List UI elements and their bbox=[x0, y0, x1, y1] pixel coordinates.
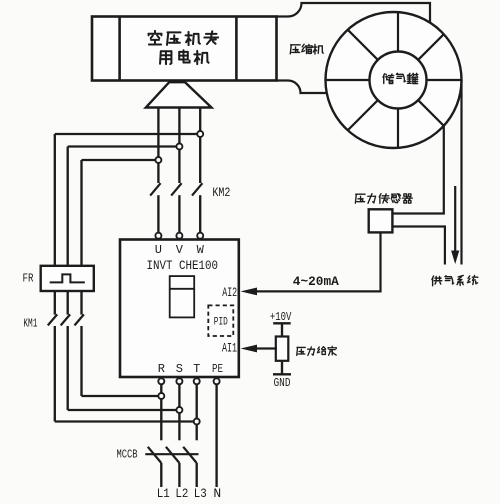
node on T wire bbox=[194, 419, 200, 425]
wire left bus 1 vertical (to T) bbox=[54, 134, 56, 315]
wire potentiometer wiper to AI1 bbox=[256, 347, 277, 349]
motor delta connection symbol bbox=[146, 82, 212, 107]
motor label line1 空压机专 bbox=[149, 31, 162, 45]
pipe right wall from tank to supply outlet bbox=[460, 80, 462, 265]
arrowhead into AI2 bbox=[241, 288, 258, 296]
FR pulse symbol bbox=[50, 274, 85, 282]
node on W phase (top tap) bbox=[197, 131, 203, 137]
wire PE terminal down to N bbox=[215, 385, 217, 488]
air tank label 储气罐 bbox=[383, 74, 394, 84]
svg-text:PE: PE bbox=[212, 362, 223, 376]
node on U phase (low tap) bbox=[155, 157, 161, 163]
GND rail bar bbox=[273, 373, 291, 375]
wire R terminal down to MCCB bbox=[160, 385, 162, 441]
wire tap from W-phase node to left bus 1 bbox=[55, 133, 200, 135]
potentiometer 压力给定 bbox=[276, 337, 289, 361]
wire V-phase KM2 to terminal V bbox=[178, 195, 180, 236]
wire tap from V-phase node to left bus 2 bbox=[68, 145, 180, 147]
wire W-phase from motor delta to KM2 bbox=[199, 108, 201, 184]
wire T terminal down to MCCB bbox=[196, 385, 198, 441]
svg-text:4~20mA: 4~20mA bbox=[293, 274, 339, 289]
setpoint label 压力给定 bbox=[297, 347, 306, 355]
svg-text:N: N bbox=[213, 486, 221, 501]
svg-text:PID: PID bbox=[214, 316, 228, 328]
supply system label 供气系统 bbox=[432, 276, 442, 286]
MCCB blades bbox=[148, 447, 162, 463]
wire potentiometer to GND bbox=[281, 361, 283, 375]
svg-text:L3: L3 bbox=[194, 486, 207, 501]
wire W-phase KM2 to terminal W bbox=[199, 195, 201, 236]
compressor coupling outline bottom bbox=[277, 81, 328, 94]
terminal circle R bbox=[158, 378, 164, 384]
wire left bus 1 horizontal to T junction bbox=[55, 420, 197, 422]
svg-text:T: T bbox=[193, 362, 200, 376]
terminal circle V bbox=[176, 233, 182, 239]
wire 4-20mA from sensor to AI2 bbox=[255, 232, 381, 291]
contactor KM2 blades bbox=[150, 183, 160, 195]
thermal relay FR box bbox=[41, 266, 94, 291]
wire R below MCCB to L1 bbox=[160, 463, 162, 487]
svg-text:S: S bbox=[176, 362, 183, 376]
compressor label 压缩机 bbox=[290, 45, 300, 54]
svg-text:U: U bbox=[155, 243, 162, 257]
inverter keypad rectangle bbox=[170, 276, 195, 317]
svg-text:INVT CHE100: INVT CHE100 bbox=[147, 258, 219, 273]
wire left bus 3 vertical (to R) bbox=[80, 160, 82, 315]
wire tap from U-phase node to left bus 3 bbox=[82, 159, 159, 161]
svg-text:AI2: AI2 bbox=[222, 286, 237, 300]
svg-text:KM2: KM2 bbox=[212, 185, 230, 200]
contactor KM1 blades bbox=[48, 314, 57, 325]
supply flow arrow bbox=[454, 186, 456, 252]
node on V phase (mid tap) bbox=[176, 144, 182, 150]
node on S wire bbox=[176, 407, 182, 413]
svg-text:W: W bbox=[197, 243, 205, 257]
svg-text:L1: L1 bbox=[157, 486, 170, 501]
terminal circle U bbox=[155, 233, 161, 239]
wire U-phase from motor delta to KM2 bbox=[157, 108, 159, 184]
wire left bus 2 horizontal to S junction bbox=[68, 409, 180, 411]
pressure sensor box bbox=[369, 209, 393, 232]
svg-text:FR: FR bbox=[23, 272, 34, 286]
compressor coupling outline top bbox=[277, 3, 431, 23]
svg-text:V: V bbox=[176, 243, 184, 257]
motor label line2 用电机 bbox=[160, 51, 171, 64]
pressure sensor label 压力传感器 bbox=[355, 194, 365, 203]
wire U-phase KM2 to terminal U bbox=[157, 195, 159, 236]
svg-text:GND: GND bbox=[274, 376, 291, 390]
air tank wheel outer circle bbox=[326, 12, 462, 148]
terminal circle T bbox=[194, 378, 200, 384]
inverter INVT CHE100 box bbox=[120, 240, 239, 378]
node on R wire bbox=[158, 393, 164, 399]
svg-text:KM1: KM1 bbox=[23, 317, 37, 331]
wire +10V to potentiometer bbox=[281, 323, 283, 336]
terminal circle W bbox=[197, 233, 203, 239]
wire S below MCCB to L2 bbox=[178, 463, 180, 487]
svg-text:MCCB: MCCB bbox=[117, 448, 138, 462]
terminal circle PE bbox=[214, 378, 220, 384]
pipe from tank bottom to pressure sensor bbox=[392, 126, 443, 213]
air tank wheel spokes bbox=[427, 79, 462, 81]
PID dashed box bbox=[208, 305, 233, 336]
svg-text:AI1: AI1 bbox=[222, 342, 237, 356]
svg-text:R: R bbox=[158, 362, 165, 376]
terminal circle S bbox=[176, 378, 182, 384]
wire V-phase from motor delta to KM2 bbox=[178, 108, 180, 184]
wire T below MCCB to L3 bbox=[196, 463, 198, 487]
pipe sensor lower port to supply outlet bbox=[392, 227, 445, 265]
wire S terminal down to MCCB bbox=[178, 385, 180, 441]
wire left bus 3 horizontal to R junction bbox=[82, 395, 162, 397]
svg-text:L2: L2 bbox=[175, 486, 188, 501]
arrowhead into AI1 bbox=[241, 345, 258, 353]
wire left bus 2 vertical (to S) bbox=[67, 147, 69, 315]
air tank wheel inner circle bbox=[370, 52, 427, 109]
+10V rail bar bbox=[273, 322, 291, 324]
MCCB tie bar bbox=[145, 453, 198, 455]
motor box 空压机专用电机 bbox=[92, 17, 277, 81]
